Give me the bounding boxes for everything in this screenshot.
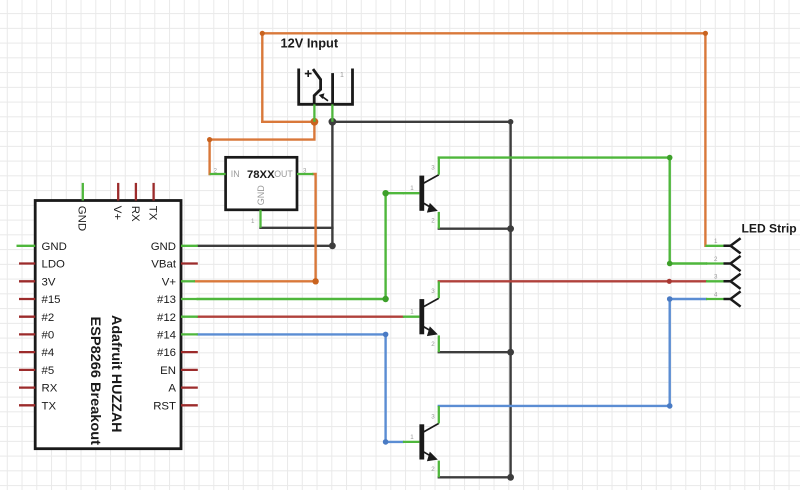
svg-text:#5: #5 — [42, 365, 55, 377]
78XX pin 2 IN leg — [210, 173, 226, 175]
svg-text:OUT: OUT — [274, 169, 293, 179]
svg-text:A: A — [168, 383, 176, 395]
svg-text:LDO: LDO — [42, 259, 66, 271]
78XX label — [247, 169, 275, 181]
svg-text:GND: GND — [42, 241, 67, 253]
jack pin plus leg — [313, 104, 315, 122]
wire to ESP V+ — [195, 280, 316, 282]
svg-text:3: 3 — [431, 165, 435, 172]
Q3 collector line — [424, 423, 439, 432]
transistor Q3 — [403, 406, 439, 478]
78XX pin number 1 — [251, 218, 255, 225]
jack pin minus leg — [331, 104, 333, 122]
Q3 pin number 1 — [410, 434, 414, 441]
LED pin 4 — [706, 291, 741, 306]
svg-text:ESP8266 Breakout: ESP8266 Breakout — [88, 317, 104, 446]
ESP pin GND top leg — [82, 183, 84, 201]
ESP pin TX top leg — [152, 183, 154, 201]
78XX body — [226, 157, 297, 210]
Q3 collector leg — [438, 406, 440, 424]
wire 12V+ right vertical to LED pin1 — [704, 33, 706, 246]
ESP pin #12 leg — [157, 312, 198, 324]
svg-text:#4: #4 — [42, 347, 55, 359]
78XX OUT label — [274, 169, 293, 179]
LED pin 3 — [706, 274, 741, 289]
svg-text:3V: 3V — [42, 276, 56, 288]
wire 12V+ left vertical — [261, 33, 263, 122]
label LED Strip — [742, 222, 797, 236]
svg-text:RX: RX — [42, 383, 58, 395]
svg-text:#12: #12 — [157, 312, 176, 324]
ESP pin A leg — [168, 383, 197, 395]
svg-text:3: 3 — [714, 274, 718, 281]
junction jack plus — [311, 118, 319, 126]
ESP top label GND — [76, 206, 88, 231]
label 12V Input — [281, 36, 339, 51]
Q3 base bar — [419, 424, 424, 459]
svg-text:3: 3 — [303, 168, 307, 175]
svg-text:#13: #13 — [157, 294, 176, 306]
ESP left pins — [17, 241, 67, 413]
ESP pin #0 leg — [19, 330, 54, 342]
svg-text:TX: TX — [42, 400, 57, 412]
junction GND top of main vertical — [508, 119, 514, 125]
jack pin number 1 — [340, 72, 344, 79]
svg-text:VBat: VBat — [151, 259, 177, 271]
ESP pin #14 leg — [157, 330, 198, 342]
junction GND Q2 emitter — [507, 349, 514, 356]
ESP top label RX — [129, 206, 141, 222]
ESP pin #5 leg — [19, 365, 54, 377]
wire ESP #14 down to Q3 base — [198, 334, 403, 442]
Q1 base leg — [403, 192, 420, 194]
node blue bend #14 corner — [383, 332, 389, 338]
svg-text:#14: #14 — [157, 330, 176, 342]
ESP pin RX top leg — [135, 183, 137, 201]
svg-text:Adafruit HUZZAH: Adafruit HUZZAH — [109, 315, 125, 433]
Q1 pin number 1 — [410, 185, 414, 192]
Q1 emitter line with arrow — [424, 203, 438, 213]
ESP pin RST leg — [153, 400, 198, 412]
wire GND jack minus down — [331, 122, 333, 246]
wire GND main vertical — [509, 122, 511, 478]
svg-text:78XX: 78XX — [247, 169, 275, 181]
Q2 base leg — [403, 316, 420, 318]
jack body — [299, 69, 353, 105]
ESP pin #4 leg — [19, 347, 54, 359]
Q2 pin number 3 — [431, 288, 435, 295]
Q3 pin number 3 — [431, 413, 435, 420]
node blue Q3 base corner — [383, 439, 389, 445]
wire Q1 emitter to GND — [439, 227, 511, 229]
junction jack minus — [329, 118, 337, 126]
junction GND Q1 emitter — [507, 225, 514, 232]
LED pin 2 — [706, 256, 741, 271]
regulator U2 78XX — [210, 157, 314, 228]
Q1 base bar — [419, 176, 424, 211]
svg-text:1: 1 — [410, 434, 414, 441]
78XX pin number 3 — [303, 168, 307, 175]
transistor Q2 — [403, 281, 439, 352]
ESP pin V+ right leg — [162, 276, 195, 288]
ESP pin LDO leg — [19, 259, 65, 271]
Q2 base bar — [419, 299, 424, 334]
wire Q1 collector to LED pin2 — [439, 158, 706, 264]
node red bend LED pin3 — [667, 279, 672, 284]
ESP pin #2 leg — [19, 312, 54, 324]
svg-text:EN: EN — [160, 365, 176, 377]
ESP top pins — [76, 183, 159, 231]
svg-text:3: 3 — [431, 413, 435, 420]
svg-text:2: 2 — [431, 466, 435, 473]
node 12V+ top-left corner — [260, 31, 265, 36]
Q2 emitter leg — [438, 335, 440, 352]
ESP pin RX leg — [19, 383, 58, 395]
78XX GND label — [256, 185, 266, 206]
svg-text:IN: IN — [231, 169, 240, 179]
wire jack plus to 78XX IN — [210, 122, 315, 174]
wire 12V+ top horizontal — [262, 32, 705, 34]
svg-text:GND: GND — [151, 241, 176, 253]
Q3 emitter line with arrow — [424, 452, 438, 462]
wire Q3 collector to LED pin4 — [439, 299, 706, 406]
Q1 emitter leg — [438, 212, 440, 229]
node blue LED pin4 corner — [667, 296, 673, 302]
svg-text:1: 1 — [410, 185, 414, 192]
svg-text:2: 2 — [431, 341, 435, 348]
svg-text:1: 1 — [714, 238, 718, 245]
svg-text:GND: GND — [76, 206, 88, 231]
svg-text:V+: V+ — [162, 276, 177, 288]
ESP title — [88, 315, 125, 445]
78XX pin 1 GND leg — [259, 210, 261, 228]
ESP pin VBat leg — [151, 259, 198, 271]
Q1 pin number 2 — [431, 217, 435, 224]
Q1 collector line — [424, 175, 439, 184]
junction green node at #13 row — [382, 296, 388, 302]
wire 12V+ to jack plus — [262, 121, 314, 123]
Q2 pin number 2 — [431, 341, 435, 348]
ESP pin V+ top leg — [117, 183, 119, 201]
Q3 base leg — [403, 441, 420, 443]
ESP top label V+ — [111, 206, 123, 221]
ESP pin EN leg — [160, 365, 198, 377]
ESP pin GND left leg — [17, 241, 67, 253]
wire Q2 emitter to GND — [439, 351, 511, 353]
ESP pin #16 leg — [157, 347, 198, 359]
ESP top label TX — [147, 206, 159, 221]
svg-text:RX: RX — [129, 206, 141, 222]
ESP pin #15 leg — [19, 294, 61, 306]
svg-text:2: 2 — [431, 217, 435, 224]
svg-text:V+: V+ — [111, 206, 123, 221]
78XX pin 3 OUT leg — [297, 173, 313, 175]
svg-text:LED Strip: LED Strip — [742, 222, 797, 236]
svg-text:12V Input: 12V Input — [281, 36, 339, 51]
junction GND at ESP GND row — [329, 242, 336, 249]
svg-text:TX: TX — [147, 206, 159, 221]
ESP8266 breakout U1 — [35, 201, 181, 449]
wire 78XX OUT down to V+ row — [313, 174, 315, 281]
wire Q2 collector to LED pin3 — [439, 280, 706, 282]
svg-text:GND: GND — [256, 185, 266, 206]
svg-text:3: 3 — [431, 288, 435, 295]
wire GND branch to ESP GND — [198, 245, 333, 247]
ESP pin 3V leg — [19, 276, 56, 288]
wire GND branch to 78XX GND — [261, 227, 333, 229]
svg-text:#15: #15 — [42, 294, 61, 306]
node orange bend near 78XX IN — [207, 137, 212, 142]
svg-text:RST: RST — [153, 400, 176, 412]
junction V+ row — [312, 278, 318, 284]
Q2 emitter line with arrow — [424, 326, 438, 336]
node 12V+ top-right corner — [703, 31, 708, 36]
78XX pin number 2 — [214, 168, 218, 175]
wire ESP #13 to node — [198, 298, 386, 300]
ESP pin GND right leg — [151, 241, 198, 253]
wire ESP #12 to Q2 base — [198, 316, 403, 318]
wire node up to Q1 base — [386, 193, 403, 299]
LED pin 1 — [705, 238, 740, 253]
svg-text:1: 1 — [251, 218, 255, 225]
wire Q3 emitter to GND — [439, 476, 511, 478]
Q1 collector leg — [438, 158, 440, 175]
ESP pin #13 leg — [157, 294, 198, 306]
junction GND Q3 emitter — [507, 474, 514, 481]
Q3 pin number 2 — [431, 466, 435, 473]
node green collector corner top — [667, 155, 673, 161]
Q2 pin number 1 — [410, 309, 414, 316]
svg-text:1: 1 — [340, 72, 344, 79]
Q2 collector line — [424, 298, 439, 307]
78XX IN label — [231, 169, 240, 179]
svg-text:#2: #2 — [42, 312, 55, 324]
node green Q1 base corner — [382, 190, 388, 196]
Q2 collector leg — [438, 281, 440, 298]
svg-text:#16: #16 — [157, 347, 176, 359]
ESP right pins — [151, 241, 198, 413]
svg-text:2: 2 — [714, 256, 718, 263]
wire GND jack minus to main vertical — [332, 121, 510, 123]
barrel jack J1 12V input — [281, 36, 353, 122]
jack plus sign — [305, 70, 312, 77]
LED strip header J2 — [705, 222, 796, 307]
svg-text:#0: #0 — [42, 330, 55, 342]
svg-text:2: 2 — [214, 168, 218, 175]
transistor Q1 — [403, 158, 439, 229]
Q1 pin number 3 — [431, 165, 435, 172]
Q3 emitter leg — [438, 461, 440, 478]
ESP body — [35, 201, 181, 449]
node blue Q3 collector corner — [667, 403, 673, 409]
ESP pin TX leg — [19, 400, 56, 412]
svg-text:1: 1 — [410, 309, 414, 316]
node green LED pin2 corner — [667, 261, 673, 267]
svg-text:4: 4 — [714, 291, 718, 298]
